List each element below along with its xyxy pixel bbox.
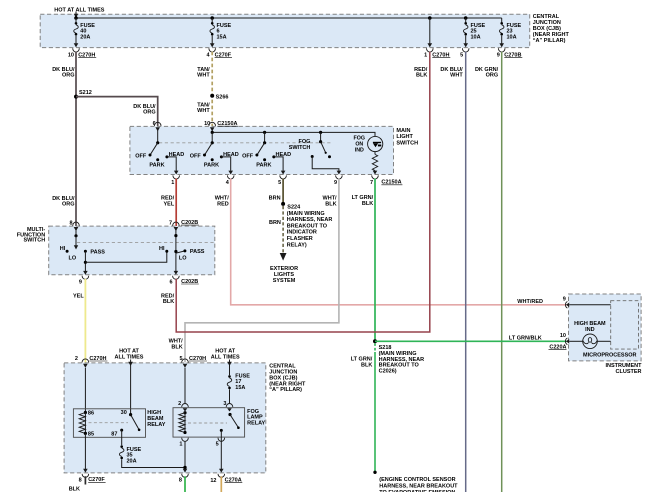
label: DK BLU/ORG (upper)	[52, 67, 75, 79]
svg-text:1: 1	[179, 442, 182, 448]
wire: PASS to pin 9 and jumper	[83, 251, 167, 274]
svg-text:FLASHER: FLASHER	[287, 236, 313, 242]
svg-text:SWITCH: SWITCH	[289, 145, 311, 151]
fuse 25	[463, 18, 468, 47]
svg-text:MICROPROCESSOR: MICROPROCESSOR	[583, 352, 637, 358]
svg-text:BLK: BLK	[361, 363, 372, 369]
fog switch (in light switch)	[311, 132, 342, 174]
junction: bus / fuse 25	[464, 16, 468, 20]
svg-text:5: 5	[216, 442, 219, 448]
mechanical link (MFS, dashed)	[77, 242, 214, 244]
svg-text:HEAD: HEAD	[276, 152, 292, 158]
svg-text:OFF: OFF	[190, 154, 202, 160]
svg-text:7: 7	[169, 220, 172, 226]
fog on indicator lamp (LED)	[368, 136, 383, 151]
label: FUSE 40 20A	[80, 23, 95, 41]
svg-text:RELAY: RELAY	[147, 422, 165, 428]
fuse 35	[119, 445, 124, 459]
connector pin 9 exit (light switch)	[334, 175, 342, 186]
junction: bus / fuse 6	[210, 16, 214, 20]
svg-text:PARK: PARK	[149, 162, 164, 168]
label: RED/YEL	[161, 196, 175, 208]
svg-text:HI: HI	[159, 246, 165, 252]
svg-text:BLK: BLK	[69, 486, 80, 492]
label: HIGH BEAM IND	[574, 321, 606, 333]
fuse 23	[499, 18, 504, 47]
label: TAN/WHT (upper)	[197, 67, 210, 79]
svg-text:ALL TIMES: ALL TIMES	[211, 354, 240, 360]
feed arrow (high beam relay 30)	[130, 360, 132, 364]
svg-text:5: 5	[278, 180, 281, 186]
svg-text:HOT AT ALL TIMES: HOT AT ALL TIMES	[54, 7, 104, 13]
relay pin 3 (fog relay contact in)	[223, 401, 232, 412]
connector pin 8 C270F exit (CJB)	[79, 474, 106, 484]
label: DK BLU/ORG (above MFS pin 8)	[52, 196, 75, 208]
connector pin 10 C220A entry (cluster)	[549, 333, 583, 351]
wire: hot feed to contact 30	[130, 363, 132, 414]
svg-text:OFF: OFF	[135, 154, 147, 160]
svg-text:9: 9	[497, 52, 500, 58]
svg-text:OFF: OFF	[242, 154, 254, 160]
svg-text:FOG: FOG	[354, 136, 365, 142]
svg-text:PARK: PARK	[256, 162, 271, 168]
svg-text:HEAD: HEAD	[169, 152, 185, 158]
svg-text:30: 30	[121, 410, 127, 416]
svg-text:YEL: YEL	[163, 201, 174, 207]
labels: OFF PARK HEAD (section 1)	[135, 152, 184, 168]
svg-text:SWITCH: SWITCH	[396, 141, 418, 147]
label: FUSE 23 10A	[507, 23, 522, 41]
wire RED/BLK : MFS 6 to CJB C270H-1	[176, 52, 430, 332]
svg-text:BRN: BRN	[269, 220, 281, 226]
wire BRN : light switch 5 to S224	[282, 179, 284, 204]
svg-text:(MAIN WIRING: (MAIN WIRING	[287, 211, 325, 217]
svg-text:1: 1	[424, 52, 427, 58]
wire TAN/WHT : C270F-4 to light switch pin 10	[211, 52, 213, 126]
label: DK BLU/WHT	[440, 67, 463, 79]
svg-text:20A: 20A	[80, 34, 90, 40]
svg-text:BLK: BLK	[325, 201, 336, 207]
connector pin 5 entry C270H (CJB)	[179, 356, 207, 368]
label: FUSE 35 20A	[127, 447, 142, 465]
splice S218	[373, 339, 391, 351]
connector pin 8 entry (MFS)	[69, 220, 79, 231]
relay pin 2 (fog relay coil in)	[178, 401, 188, 412]
connector pin 7 entry C202B (MFS)	[169, 220, 199, 231]
instrument cluster box	[569, 294, 643, 375]
connector pin 10 entry C2150A (light switch)	[204, 121, 238, 131]
svg-text:9: 9	[79, 279, 82, 285]
resistor (fog indicator dropping resistor)	[372, 152, 377, 175]
label: HOT AT ALL TIMES (high beam relay feed)	[115, 348, 144, 360]
note: S224 main wiring harness	[287, 211, 333, 249]
label: FOG SWITCH	[289, 139, 311, 151]
svg-text:SYSTEM: SYSTEM	[273, 278, 296, 284]
svg-text:HEAD: HEAD	[223, 152, 239, 158]
wire: fog relay contact to C270A-12	[219, 430, 224, 472]
wire DK GRN/ORG : C270B-9 down	[501, 52, 503, 492]
relay pin 5 (fog relay contact out)	[216, 438, 225, 448]
connector pin 12 C270A exit (CJB)	[210, 474, 242, 484]
svg-text:7: 7	[370, 180, 373, 186]
svg-text:ORG: ORG	[62, 202, 75, 208]
relay pin 1 (fog relay coil out)	[179, 438, 188, 448]
svg-text:ORG: ORG	[62, 73, 75, 79]
svg-text:20A: 20A	[127, 458, 137, 464]
node: EXTERIOR LIGHTS SYSTEM	[270, 266, 298, 284]
connector pin 9 C270B	[497, 48, 523, 58]
switch section 3 (OFF/PARK/HEAD)	[255, 132, 285, 174]
svg-text:2: 2	[75, 356, 78, 362]
label: TAN/WHT (lower)	[197, 102, 210, 114]
label: FOG ON IND	[354, 136, 365, 154]
svg-text:BLK: BLK	[362, 201, 373, 207]
wire LT GRN/BLK : light switch 7 to S218	[374, 179, 376, 342]
connector pin 4 exit (light switch)	[226, 175, 234, 186]
multifunction switch box C202B	[17, 226, 215, 275]
connector pin 9 exit (MFS)	[79, 276, 89, 286]
wire: relay 87 to fuse 35	[121, 430, 123, 445]
main light switch box C2150A	[130, 126, 418, 174]
junction: bus / fuse 40	[74, 16, 78, 20]
svg-text:“A” PILLAR): “A” PILLAR)	[533, 38, 566, 44]
label: HIGH BEAM RELAY	[147, 410, 165, 428]
svg-text:15A: 15A	[217, 34, 227, 40]
labels: HI LO PASS (left)	[60, 246, 106, 262]
wire: fog relay coil out to pin 8	[183, 441, 188, 472]
svg-text:IND: IND	[355, 148, 364, 154]
wire WHT/BLK : light switch 9 to CJB C270H-5	[185, 179, 339, 363]
svg-text:12: 12	[210, 478, 216, 484]
label: WHT/RED (at switch)	[215, 196, 230, 208]
wire TAN : fog lamp feed stub	[220, 476, 222, 492]
central junction box (top, CJB) outline	[40, 14, 569, 47]
svg-text:IND: IND	[585, 327, 595, 333]
connector pin 5 exit (light switch)	[278, 175, 286, 186]
label: WHT/BLK (at CJB pin 5)	[169, 339, 184, 351]
connector pin 2 entry C270H (CJB)	[75, 356, 108, 368]
switch section 1 (OFF/PARK/HEAD)	[149, 129, 179, 175]
svg-text:RELAY): RELAY)	[287, 242, 307, 248]
feed arrow (fuse 17)	[229, 360, 231, 364]
junction: bus / pin 1 drop	[428, 16, 432, 20]
wire: high beam relay coil to C270F-8	[83, 433, 88, 472]
svg-text:10: 10	[68, 52, 74, 58]
labels: OFF PARK HEAD (section 2)	[190, 152, 239, 168]
svg-text:2: 2	[178, 401, 181, 407]
svg-text:LT GRN/: LT GRN/	[352, 195, 374, 201]
svg-text:1: 1	[171, 180, 174, 186]
svg-text:5: 5	[460, 52, 463, 58]
svg-text:8: 8	[69, 220, 72, 226]
dimmer switch left (HI/LO/PASS)	[66, 229, 87, 253]
svg-text:6: 6	[153, 121, 156, 127]
connector pin 5	[460, 48, 469, 58]
wire: drop to pin 1	[428, 18, 433, 47]
svg-text:S212: S212	[79, 90, 92, 96]
svg-text:15A: 15A	[235, 385, 245, 391]
fuse 40	[74, 18, 79, 47]
wire RED/YEL : light switch 1 to MFS 7	[175, 179, 177, 227]
svg-text:8: 8	[179, 478, 182, 484]
svg-text:PASS: PASS	[90, 249, 105, 255]
label: FUSE 6 15A	[217, 23, 232, 41]
wire: coil feed into high beam relay	[84, 368, 86, 413]
svg-text:LT GRN/BLK: LT GRN/BLK	[509, 336, 542, 342]
labels: OFF PARK HEAD (section 3)	[242, 152, 291, 168]
wire: light switch internal bus	[212, 129, 375, 137]
label: DK BLU/ORG (branch)	[133, 104, 156, 116]
connector pin 4 C270F	[207, 48, 232, 58]
wire DK BLU/ORG branch : S212 to light switch pin 6	[76, 97, 158, 126]
connector pin 1 C270H	[424, 48, 450, 58]
svg-text:BLK: BLK	[163, 299, 174, 305]
splice S266	[210, 94, 228, 101]
svg-text:CLUSTER: CLUSTER	[616, 369, 642, 375]
svg-text:9: 9	[334, 180, 337, 186]
wire LT GRN : fog/high beam output stub	[184, 476, 186, 492]
svg-text:4: 4	[207, 52, 211, 58]
svg-text:LO: LO	[179, 256, 187, 262]
svg-text:SWITCH: SWITCH	[23, 238, 45, 244]
svg-text:87: 87	[111, 431, 117, 437]
svg-text:HARNESS, NEAR: HARNESS, NEAR	[287, 217, 333, 223]
svg-text:85: 85	[88, 431, 94, 437]
labels: HI LO PASS (right)	[159, 246, 205, 261]
wire: fuse 35 to pin 8 junction	[122, 459, 185, 467]
connector pin 6 exit C202B (MFS)	[170, 276, 199, 286]
wire: WHT/BLK feed to fog relay coil	[184, 368, 186, 403]
label: DK GRN/ORG	[475, 67, 499, 79]
connector pin 10 C270H (cup symbol)	[68, 48, 96, 58]
svg-text:YEL: YEL	[73, 294, 84, 300]
svg-text:BREAKOUT TO: BREAKOUT TO	[287, 223, 328, 229]
svg-text:ORG: ORG	[486, 73, 499, 79]
svg-text:PARK: PARK	[204, 162, 219, 168]
label: LT GRN/BLK (at switch)	[352, 195, 374, 207]
wire DK BLU/WHT : C270H-5 down	[465, 52, 467, 492]
dimmer switch right (HI/LO/PASS)	[165, 229, 186, 275]
wire WHT/RED : light switch 4 to instrument cluster 9	[231, 179, 567, 305]
svg-text:86: 86	[88, 410, 94, 416]
label: LT GRN/BLK (below S218)	[351, 357, 373, 369]
connector pin 6 entry (light switch)	[153, 121, 161, 131]
label: FUSE 25 10A	[471, 23, 486, 41]
svg-text:RED: RED	[217, 201, 229, 207]
junction: bus at section 3 riser	[263, 131, 266, 134]
fog lamp relay	[173, 408, 245, 437]
svg-text:9: 9	[563, 297, 566, 303]
svg-text:10A: 10A	[507, 34, 517, 40]
svg-text:“A” PILLAR): “A” PILLAR)	[269, 387, 302, 393]
wire BRN off-page (dashed) to exterior lights	[280, 206, 287, 261]
svg-text:4: 4	[226, 180, 230, 186]
svg-text:LIGHT: LIGHT	[396, 134, 413, 140]
high beam relay	[73, 409, 145, 438]
label: FOG LAMP RELAY	[247, 409, 265, 427]
svg-text:6: 6	[170, 279, 173, 285]
svg-text:10: 10	[560, 333, 566, 339]
fuse 6	[210, 18, 215, 47]
svg-text:LO: LO	[69, 256, 77, 262]
wire BLK : ground stub	[84, 476, 86, 484]
svg-text:RELAY: RELAY	[247, 420, 265, 426]
svg-text:8: 8	[79, 478, 82, 484]
svg-text:ALL TIMES: ALL TIMES	[115, 354, 144, 360]
svg-text:INDICATOR: INDICATOR	[287, 230, 317, 236]
note: engine control sensor harness	[379, 477, 458, 492]
svg-text:ORG: ORG	[143, 110, 156, 116]
wire: CJB internal hot bus	[76, 17, 502, 19]
label: RED/BLK (top right)	[414, 67, 428, 79]
note: S218 main wiring harness	[379, 351, 425, 375]
svg-text:WHT: WHT	[197, 73, 210, 79]
svg-text:HARNESS, NEAR BREAKOUT: HARNESS, NEAR BREAKOUT	[379, 483, 458, 489]
junction: bus at fog switch riser	[319, 131, 322, 134]
label: RED/BLK (at MFS)	[161, 293, 175, 305]
labels: 86 85 30 87 (high beam relay)	[88, 410, 127, 437]
connector pin 8 exit (CJB bottom middle)	[179, 474, 188, 484]
svg-text:(ENGINE CONTROL SENSOR: (ENGINE CONTROL SENSOR	[379, 477, 455, 483]
label: FUSE 17 15A	[235, 373, 250, 391]
junction: bus at pin 10 riser	[211, 131, 214, 134]
svg-text:WHT: WHT	[450, 73, 463, 79]
svg-text:MAIN: MAIN	[396, 128, 410, 134]
svg-text:WHT: WHT	[197, 108, 210, 114]
splice S212	[74, 90, 92, 99]
label: HOT AT ALL TIMES (fuse 17 feed)	[211, 348, 240, 360]
svg-text:WHT/RED: WHT/RED	[517, 299, 543, 305]
switch section 2 (OFF/PARK/HEAD)	[203, 132, 233, 174]
fuse 17	[227, 363, 232, 403]
wire LT GRN/BLK : S218 to instrument cluster 10	[375, 340, 567, 342]
microprocessor box (dashed)	[583, 301, 638, 359]
connector pin 1 exit (light switch)	[171, 175, 179, 186]
svg-text:BRN: BRN	[269, 196, 281, 202]
wire YEL : MFS 9 to CJB C270H-2	[84, 279, 86, 363]
connector pin 9 entry (cluster)	[563, 297, 611, 308]
svg-text:BLK: BLK	[416, 73, 427, 79]
svg-text:PASS: PASS	[190, 249, 205, 255]
svg-text:10A: 10A	[471, 34, 481, 40]
svg-text:S224: S224	[287, 204, 301, 210]
svg-text:ON: ON	[355, 142, 363, 148]
battery feed arrow into CJB	[74, 12, 78, 18]
central junction box (bottom, CJB) outline	[64, 363, 306, 473]
splice S224	[281, 202, 301, 211]
svg-text:C2026): C2026)	[379, 369, 397, 375]
svg-text:BLK: BLK	[171, 344, 182, 350]
mechanical link (light switch, dashed)	[159, 142, 332, 144]
connector pin 7 exit C2150A (light switch)	[370, 175, 402, 186]
high beam indicator lamp	[583, 334, 611, 349]
label: WHT/BLK (at switch)	[323, 196, 338, 208]
wire LT GRN/BLK : S218 down to engine control sensor harness	[373, 343, 376, 474]
wire DK BLU/ORG : C270H-10 to S212 to multifunction switch pin 8	[75, 52, 77, 226]
svg-text:HI: HI	[60, 246, 66, 252]
svg-text:S266: S266	[216, 94, 229, 100]
